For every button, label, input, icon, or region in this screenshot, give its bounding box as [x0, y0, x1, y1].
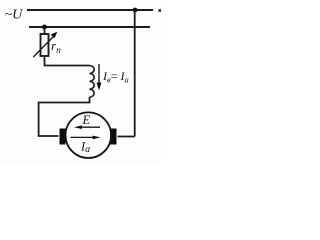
- brush right: [110, 129, 116, 145]
- arrow for E pointing left: [78, 126, 100, 128]
- motor armature M circle: [66, 112, 112, 158]
- stray mark at right edge: [159, 9, 162, 12]
- svg-text:E: E: [82, 113, 91, 127]
- node junction dot on second line: [42, 25, 47, 30]
- brush left: [60, 129, 66, 145]
- wire: top supply line: [27, 9, 153, 11]
- inductor field winding: [90, 66, 95, 98]
- wire: second supply line: [29, 26, 150, 28]
- svg-text:Iв= Iа: Iв= Iа: [102, 69, 129, 85]
- wire from right brush to right vertical: [118, 136, 135, 138]
- wire from rheostat down and right to field coil: [45, 56, 90, 66]
- svg-text:~U: ~U: [5, 8, 24, 23]
- node junction dot on top line: [133, 8, 138, 13]
- arrow for Ia pointing right: [71, 136, 96, 138]
- wire from second line down to rheostat: [44, 27, 46, 34]
- wire right vertical from top line to armature: [134, 10, 136, 137]
- resistor rn variable arrow: [33, 36, 54, 57]
- current arrow Iv: [98, 64, 100, 84]
- wire from coil bottom to left side of armature loop: [39, 97, 90, 136]
- svg-text:rп: rп: [51, 38, 61, 56]
- resistor rn rheostat body: [41, 34, 49, 56]
